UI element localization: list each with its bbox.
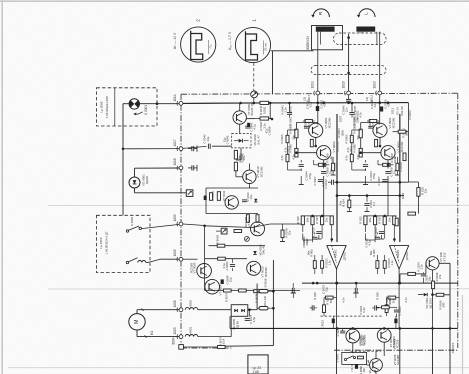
resistor R9072: [256, 215, 259, 223]
strip 90 base resistor Rb: [295, 148, 298, 157]
strip 90 resistor Rf: [286, 154, 289, 161]
resistor R9075: [239, 289, 247, 292]
cap C9027: [245, 318, 250, 320]
transistor VT9009: [233, 111, 246, 124]
diode VD9008: [253, 251, 257, 255]
strip 90 resistor Rd: [318, 163, 325, 166]
cap C9041: [245, 125, 250, 127]
A9001.2 gnd stub: [355, 293, 357, 298]
relay coil L2301: [138, 261, 146, 263]
strip 91 collector resistor: [369, 120, 376, 123]
head L lead wire: [379, 32, 381, 91]
record top wires: [269, 103, 271, 119]
page border left: [1, 0, 3, 374]
record sub-rail left: [205, 188, 207, 214]
VT9010 emitter wire: [248, 184, 250, 189]
wire bridge right: [248, 309, 250, 311]
rail junction o3: [352, 327, 355, 330]
test jack wire: [216, 230, 221, 232]
scope trace 2: [191, 31, 203, 61]
head R rotation arrow: [313, 9, 329, 17]
bus junction 1: [239, 102, 242, 105]
pin 1009: [179, 222, 183, 226]
resistor R9056: [259, 307, 268, 310]
fold line B: [48, 288, 469, 290]
mech link dashed: [321, 315, 384, 317]
cap C9020: [394, 309, 399, 311]
switch S2003: [126, 261, 128, 263]
strip 90 resistor Re: [286, 135, 289, 142]
C9017 wires: [423, 272, 425, 274]
strip 91 resistor Rg: [396, 163, 399, 170]
scope1-to-head wire: [271, 50, 314, 52]
strip 91 resistor Rf: [350, 154, 353, 161]
cap C924: [364, 203, 369, 205]
gnd cap stub bus2: [351, 103, 353, 112]
strip 90 cap Ce: [299, 164, 304, 166]
rail y195.6: [337, 195, 404, 197]
rail junction o4: [383, 327, 386, 330]
op-amp A9001.1: [327, 246, 346, 269]
head R lead wire: [317, 32, 319, 91]
shield dashed sleeve lower: [311, 66, 386, 75]
transistor VT9102: [381, 146, 395, 160]
strip 91 cap Ce: [363, 164, 368, 166]
fold mark right-bottom: [462, 295, 464, 374]
strip 90 cap C9007: [318, 179, 323, 181]
A9001.1 fb pcap: [332, 319, 335, 324]
pin1013 drop wire: [379, 95, 381, 123]
A9001.2 cap in1: [379, 231, 384, 233]
motor bracket bottom: [145, 335, 147, 337]
A9001.1 wiring: [302, 225, 304, 232]
test jack symbol: [221, 228, 227, 234]
supply bus wire: [183, 102, 260, 105]
resistor R1002: [408, 272, 416, 275]
bus end drop: [407, 103, 409, 182]
transistor VT9010: [243, 170, 256, 183]
right verticals ext: [432, 328, 434, 374]
head L (record/play head): [356, 27, 375, 32]
strip 91 resistor Rc: [375, 139, 378, 146]
right mid wiring: [408, 181, 418, 183]
resistor R1001v: [395, 218, 398, 226]
head return wire down: [272, 51, 274, 94]
strip 90 collector resistor: [305, 120, 312, 123]
wire lamp to pin1014: [140, 103, 180, 105]
probe link wire: [253, 63, 255, 91]
A9001.1 fb resistor h: [326, 296, 334, 299]
rail junction o1: [336, 327, 339, 330]
A9001.2 input resistor 4: [393, 216, 396, 225]
VT9007 wires: [383, 327, 385, 329]
varicap dashed box: [232, 134, 251, 148]
rail junction c3: [399, 282, 402, 285]
wire L9002 to bridge: [198, 309, 231, 311]
A9001.2 cap in2: [375, 236, 380, 238]
lamp S2001: [129, 99, 139, 109]
rail junction o2: [399, 327, 402, 330]
module boundary top: [181, 93, 458, 94]
A9001.1 input resistor 4: [330, 216, 333, 225]
measuring point B: [245, 237, 250, 242]
transistor VT9006: [346, 329, 360, 343]
resistor R9057: [218, 346, 226, 349]
transistor VT9101: [373, 123, 387, 137]
coil L9001: [185, 335, 198, 337]
photodiode wire up: [134, 168, 136, 177]
transistor VT9001: [309, 123, 323, 137]
scope bubble 2: [181, 27, 216, 62]
pcap C9002: [380, 107, 383, 112]
A9001.1 input resistor 1: [301, 216, 304, 225]
A9001.1 side resistor2: [321, 261, 324, 269]
R9042 wires: [376, 306, 382, 308]
vertical rail x204: [204, 226, 206, 291]
pcap C9001: [316, 106, 319, 111]
analog rail y283: [302, 282, 458, 284]
wire 1009 rail: [205, 226, 252, 228]
pcap C9045: [221, 279, 224, 284]
bus series resistor R9046: [260, 101, 269, 104]
head R shield box: [312, 26, 343, 50]
module boundary left: [180, 94, 182, 348]
pcap C9041b: [247, 123, 250, 127]
A9001.1 input resistor 3: [321, 216, 324, 225]
strip 91 base resistor Ra: [359, 129, 362, 138]
wire R9047 net: [246, 118, 260, 120]
mid rail y245.7: [208, 245, 265, 247]
transistor VT9007: [377, 328, 391, 342]
A9001.1 col top rail: [303, 215, 332, 217]
strip 90 base resistor Ra: [295, 129, 298, 138]
wire varicap down: [240, 148, 242, 160]
A9001.2 out wire: [398, 283, 400, 328]
wire lamp left: [123, 103, 129, 105]
strip 91 base resistor Rb: [359, 148, 362, 157]
strip 90 gnd bar: [299, 184, 304, 186]
rail junction o5: [431, 327, 434, 330]
fold line C: [8, 367, 469, 369]
diode VD1001: [424, 293, 428, 297]
A9001.2 fb resistor v: [385, 305, 388, 313]
wire pin1014 into module: [183, 102, 241, 104]
junction on x123: [122, 148, 125, 151]
resistor R9064: [217, 192, 220, 201]
bias feed left vertical: [256, 284, 258, 310]
VT9009 leads: [239, 103, 241, 111]
resistor R9042p: [382, 306, 390, 309]
diode VD9012: [254, 199, 257, 202]
resistor R9065: [210, 193, 213, 201]
head R (record/play head): [316, 27, 335, 32]
module boundary bottom: [181, 347, 232, 349]
bottom unit box: [248, 355, 268, 374]
op-amp A9001.2: [390, 246, 409, 269]
gnd cap left opamp: [291, 288, 293, 293]
pin 8004 (square): [179, 345, 184, 350]
strip 91 wiring: [379, 123, 381, 125]
resistor R1003: [432, 281, 435, 289]
strip 91 junctions: [359, 151, 362, 154]
transistor VT9004: [205, 279, 220, 294]
scope 2 dim mark: [208, 40, 210, 54]
switch dash link: [351, 364, 353, 372]
right wiring: [432, 270, 434, 281]
pcap record: [204, 196, 207, 201]
wire motor to pin1006: [136, 310, 138, 314]
pin 1003: [179, 335, 183, 339]
head common lead wire: [348, 34, 350, 91]
resistor R9055: [259, 290, 268, 293]
A9001.1 out wire: [336, 283, 338, 328]
cap C9012: [331, 180, 333, 185]
pin 1019: [316, 91, 320, 95]
wire x123 to pin1017: [123, 148, 179, 150]
A9001.1 gnd stub: [292, 293, 294, 298]
wire 8004 rail: [183, 346, 218, 348]
resistor R9049: [234, 150, 237, 159]
pin 1018: [179, 166, 183, 170]
jack socket symbol: [186, 190, 193, 197]
resistor R9076: [254, 290, 262, 293]
bus junction 2: [317, 102, 320, 105]
photodiode wire down: [134, 188, 136, 193]
A9001.1 cap in1: [316, 231, 321, 233]
strip 90 cap C9008: [321, 171, 326, 173]
rail y258.7: [205, 258, 247, 260]
resistor R9047: [260, 117, 269, 120]
lamp arrow: [136, 112, 143, 114]
head L rotation arrow: [359, 9, 375, 17]
VT9010 collector wire: [248, 164, 250, 171]
VT9006 wires: [352, 327, 354, 330]
strip 91 extra wires: [351, 130, 353, 135]
resistor R924: [348, 200, 351, 208]
transistor VT1001: [426, 257, 439, 270]
strip 90 junctions: [295, 151, 298, 154]
rail junction c1: [316, 282, 319, 285]
wire pin1005 right: [183, 258, 198, 260]
resistor R1001h: [408, 212, 416, 215]
A9001.2 input resistor 3: [383, 216, 386, 225]
VT9010 base wire: [235, 171, 237, 177]
resistor R1000: [417, 188, 420, 197]
scope 1 dim mark: [263, 41, 265, 55]
signal wire ch2 down: [399, 114, 401, 242]
cap C9043b: [230, 264, 235, 266]
A9001.2 fb resistor h: [388, 296, 396, 299]
transistor VT9011: [225, 196, 238, 209]
strip 91 resistor Rd: [383, 163, 390, 166]
bus junction 4: [378, 101, 381, 104]
strip 91 cap Ch: [368, 125, 373, 127]
A9001.2 side resistor1: [376, 261, 379, 269]
switch S2002: [126, 230, 128, 232]
rail junction c4: [312, 282, 315, 285]
bottom rail y289.2: [205, 290, 300, 292]
A9001.1 input resistor 2: [311, 216, 314, 225]
VT9008 wires: [367, 360, 369, 363]
wire L9001 right: [198, 336, 231, 338]
R924 wires: [348, 196, 350, 201]
cap at pin1017: [188, 148, 192, 150]
out vertical ch2 ext: [399, 328, 401, 374]
lamp unit box Lp2080: [97, 88, 158, 126]
wire pin1009 right: [183, 224, 205, 226]
pin 1014: [179, 102, 183, 106]
strip 90 resistor Rg: [332, 163, 335, 170]
lamp unit inner divider: [114, 88, 116, 126]
record sub-rail top: [206, 187, 258, 189]
strip 91 cap C9008: [385, 171, 390, 173]
resistor R9074: [224, 289, 232, 292]
pin 1016: [347, 91, 351, 95]
wire motor to pin1003: [136, 330, 138, 337]
coil L9002: [185, 308, 198, 310]
photodiode VD9001: [129, 177, 140, 188]
A9001.2 input resistor 2: [374, 216, 377, 225]
resistor R8 v: [403, 153, 406, 161]
strip 90 wiring: [317, 123, 319, 125]
page border top: [0, 0, 469, 2]
strip 90 extra wires: [287, 130, 289, 135]
out vertical ch1 ext: [336, 328, 338, 374]
measuring point A: [251, 91, 258, 98]
cap at pin1018: [188, 167, 192, 169]
transistor VT9008: [370, 359, 383, 372]
resistor R9071: [246, 215, 249, 223]
switch unit box Lp2300: [97, 215, 151, 272]
module boundary right: [457, 93, 459, 348]
VT1001 collector loop: [439, 262, 450, 264]
transistor VT9002: [317, 146, 331, 160]
wire S2002 to pin1009: [141, 224, 179, 228]
scope trace 1: [246, 31, 258, 61]
pin 1017: [179, 147, 183, 151]
signal wire ch1 down: [336, 114, 338, 242]
A9001.2 col top rail: [365, 215, 394, 217]
A9001.2 input resistor 1: [364, 216, 367, 225]
switch box S9001: [342, 352, 367, 364]
resistor R9050: [234, 162, 237, 171]
gnd cap right opamp: [354, 288, 356, 293]
A9001.1 side resistor1: [313, 261, 316, 269]
wire 8004 rail cont: [225, 345, 273, 348]
A9001.1 cap in2: [312, 236, 317, 238]
strip 91 resistor Re: [350, 135, 353, 142]
cap C9017: [421, 273, 426, 275]
resistor R9070: [234, 230, 242, 233]
pin1019 drop wire: [317, 95, 319, 123]
scope bubble 1: [235, 27, 270, 62]
varicap diode VD9010: [239, 139, 243, 143]
rail junction c2: [336, 282, 339, 285]
wire S2003 to pin1005: [148, 259, 160, 262]
pcap C9026: [355, 364, 358, 369]
A9001.2 wiring: [364, 225, 366, 232]
transistor VT9012: [251, 222, 265, 236]
bias rail y222.8: [252, 224, 270, 228]
VD1001 wires: [433, 294, 437, 296]
fold line A: [48, 204, 469, 206]
resistor R9069: [217, 244, 225, 247]
junction at lamp box edge: [156, 102, 159, 105]
bias feed right vertical: [272, 260, 274, 316]
resistor R9078: [282, 224, 284, 230]
gnd cap C9023: [342, 328, 344, 330]
transistor VT9013: [247, 261, 261, 275]
mech dashed rail: [350, 350, 381, 352]
strip 91 cap C9007: [382, 179, 387, 181]
strip 90 cap Ch: [304, 125, 309, 127]
strip 90 resistor Rc: [310, 139, 313, 146]
motor bracket top: [142, 309, 144, 311]
wire lamp-box down: [122, 104, 124, 216]
pin 1005: [179, 257, 183, 261]
resistor R9073: [218, 257, 226, 260]
series cap C9042: [183, 146, 207, 148]
output rail y328.4: [230, 327, 458, 329]
pin 1013: [378, 91, 382, 95]
resistor R8 top: [398, 130, 406, 133]
A9001.2 fb pcap: [394, 319, 397, 324]
bus junction 3: [347, 102, 350, 105]
junction 1009: [203, 225, 206, 228]
gnd cap stub bus1: [289, 103, 291, 112]
pin1016 drop wire: [348, 95, 350, 99]
shield dashed sleeve upper: [334, 33, 387, 45]
A9001.2 side resistor2: [383, 261, 386, 269]
resistor R1004: [436, 293, 444, 296]
transistor VT9005: [197, 264, 212, 279]
record sub-rail bottom: [206, 213, 258, 215]
VT9008 wires2: [375, 351, 377, 358]
strip 91 gnd bar: [363, 184, 368, 186]
rail y182: [334, 181, 408, 183]
pin 1006: [179, 308, 183, 312]
cap C9043: [242, 199, 247, 201]
motor M1: [129, 314, 145, 330]
A9001.1 fb resistor v: [323, 305, 326, 313]
rectifier box VD9009: [231, 305, 248, 317]
